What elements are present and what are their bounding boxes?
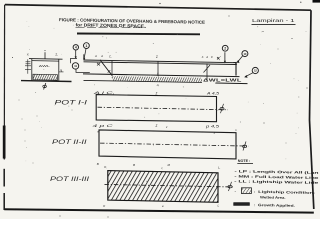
svg-text:Wetted Area.: Wetted Area. [260, 195, 286, 199]
svg-text:C,: C, [109, 54, 112, 58]
svg-text:4: 4 [75, 46, 77, 50]
svg-text:b A F: b A F [202, 55, 213, 59]
svg-text:POT III-III: POT III-III [50, 177, 89, 183]
svg-text:p 4,5: p 4,5 [204, 124, 219, 128]
svg-text:1: 1 [85, 44, 87, 48]
svg-text:Lampiran - 1: Lampiran - 1 [252, 18, 295, 24]
svg-text:Σ: Σ [155, 124, 158, 128]
svg-text:t,: t, [162, 166, 164, 170]
svg-text:B: B [97, 162, 99, 166]
svg-text:NOTE :: NOTE : [238, 158, 251, 163]
svg-text:POT I-I: POT I-I [55, 101, 88, 107]
svg-text:B: B [133, 163, 135, 167]
svg-text:A,: A, [156, 83, 160, 87]
svg-text::: : [254, 190, 255, 194]
svg-text:A A: A A [94, 54, 103, 58]
svg-text:POT II-II: POT II-II [52, 140, 87, 146]
svg-text:L,: L, [218, 166, 221, 170]
svg-text:Σ: Σ [155, 91, 158, 95]
svg-text:Growth Applied.: Growth Applied. [258, 203, 295, 208]
svg-text::: : [254, 203, 255, 207]
svg-text:ΔWL=LWL: ΔWL=LWL [203, 77, 242, 82]
svg-text:4 p C: 4 p C [93, 124, 115, 128]
svg-text:Σ: Σ [155, 55, 158, 59]
svg-text:2: 2 [224, 47, 226, 51]
svg-text:A 4,5: A 4,5 [205, 92, 219, 96]
svg-text:K,: K, [104, 165, 107, 169]
svg-text:X: X [27, 52, 29, 56]
svg-text:Z,: Z, [55, 52, 58, 56]
svg-text:-: - [235, 190, 236, 194]
svg-text:ΔWL: ΔWL [39, 64, 51, 68]
